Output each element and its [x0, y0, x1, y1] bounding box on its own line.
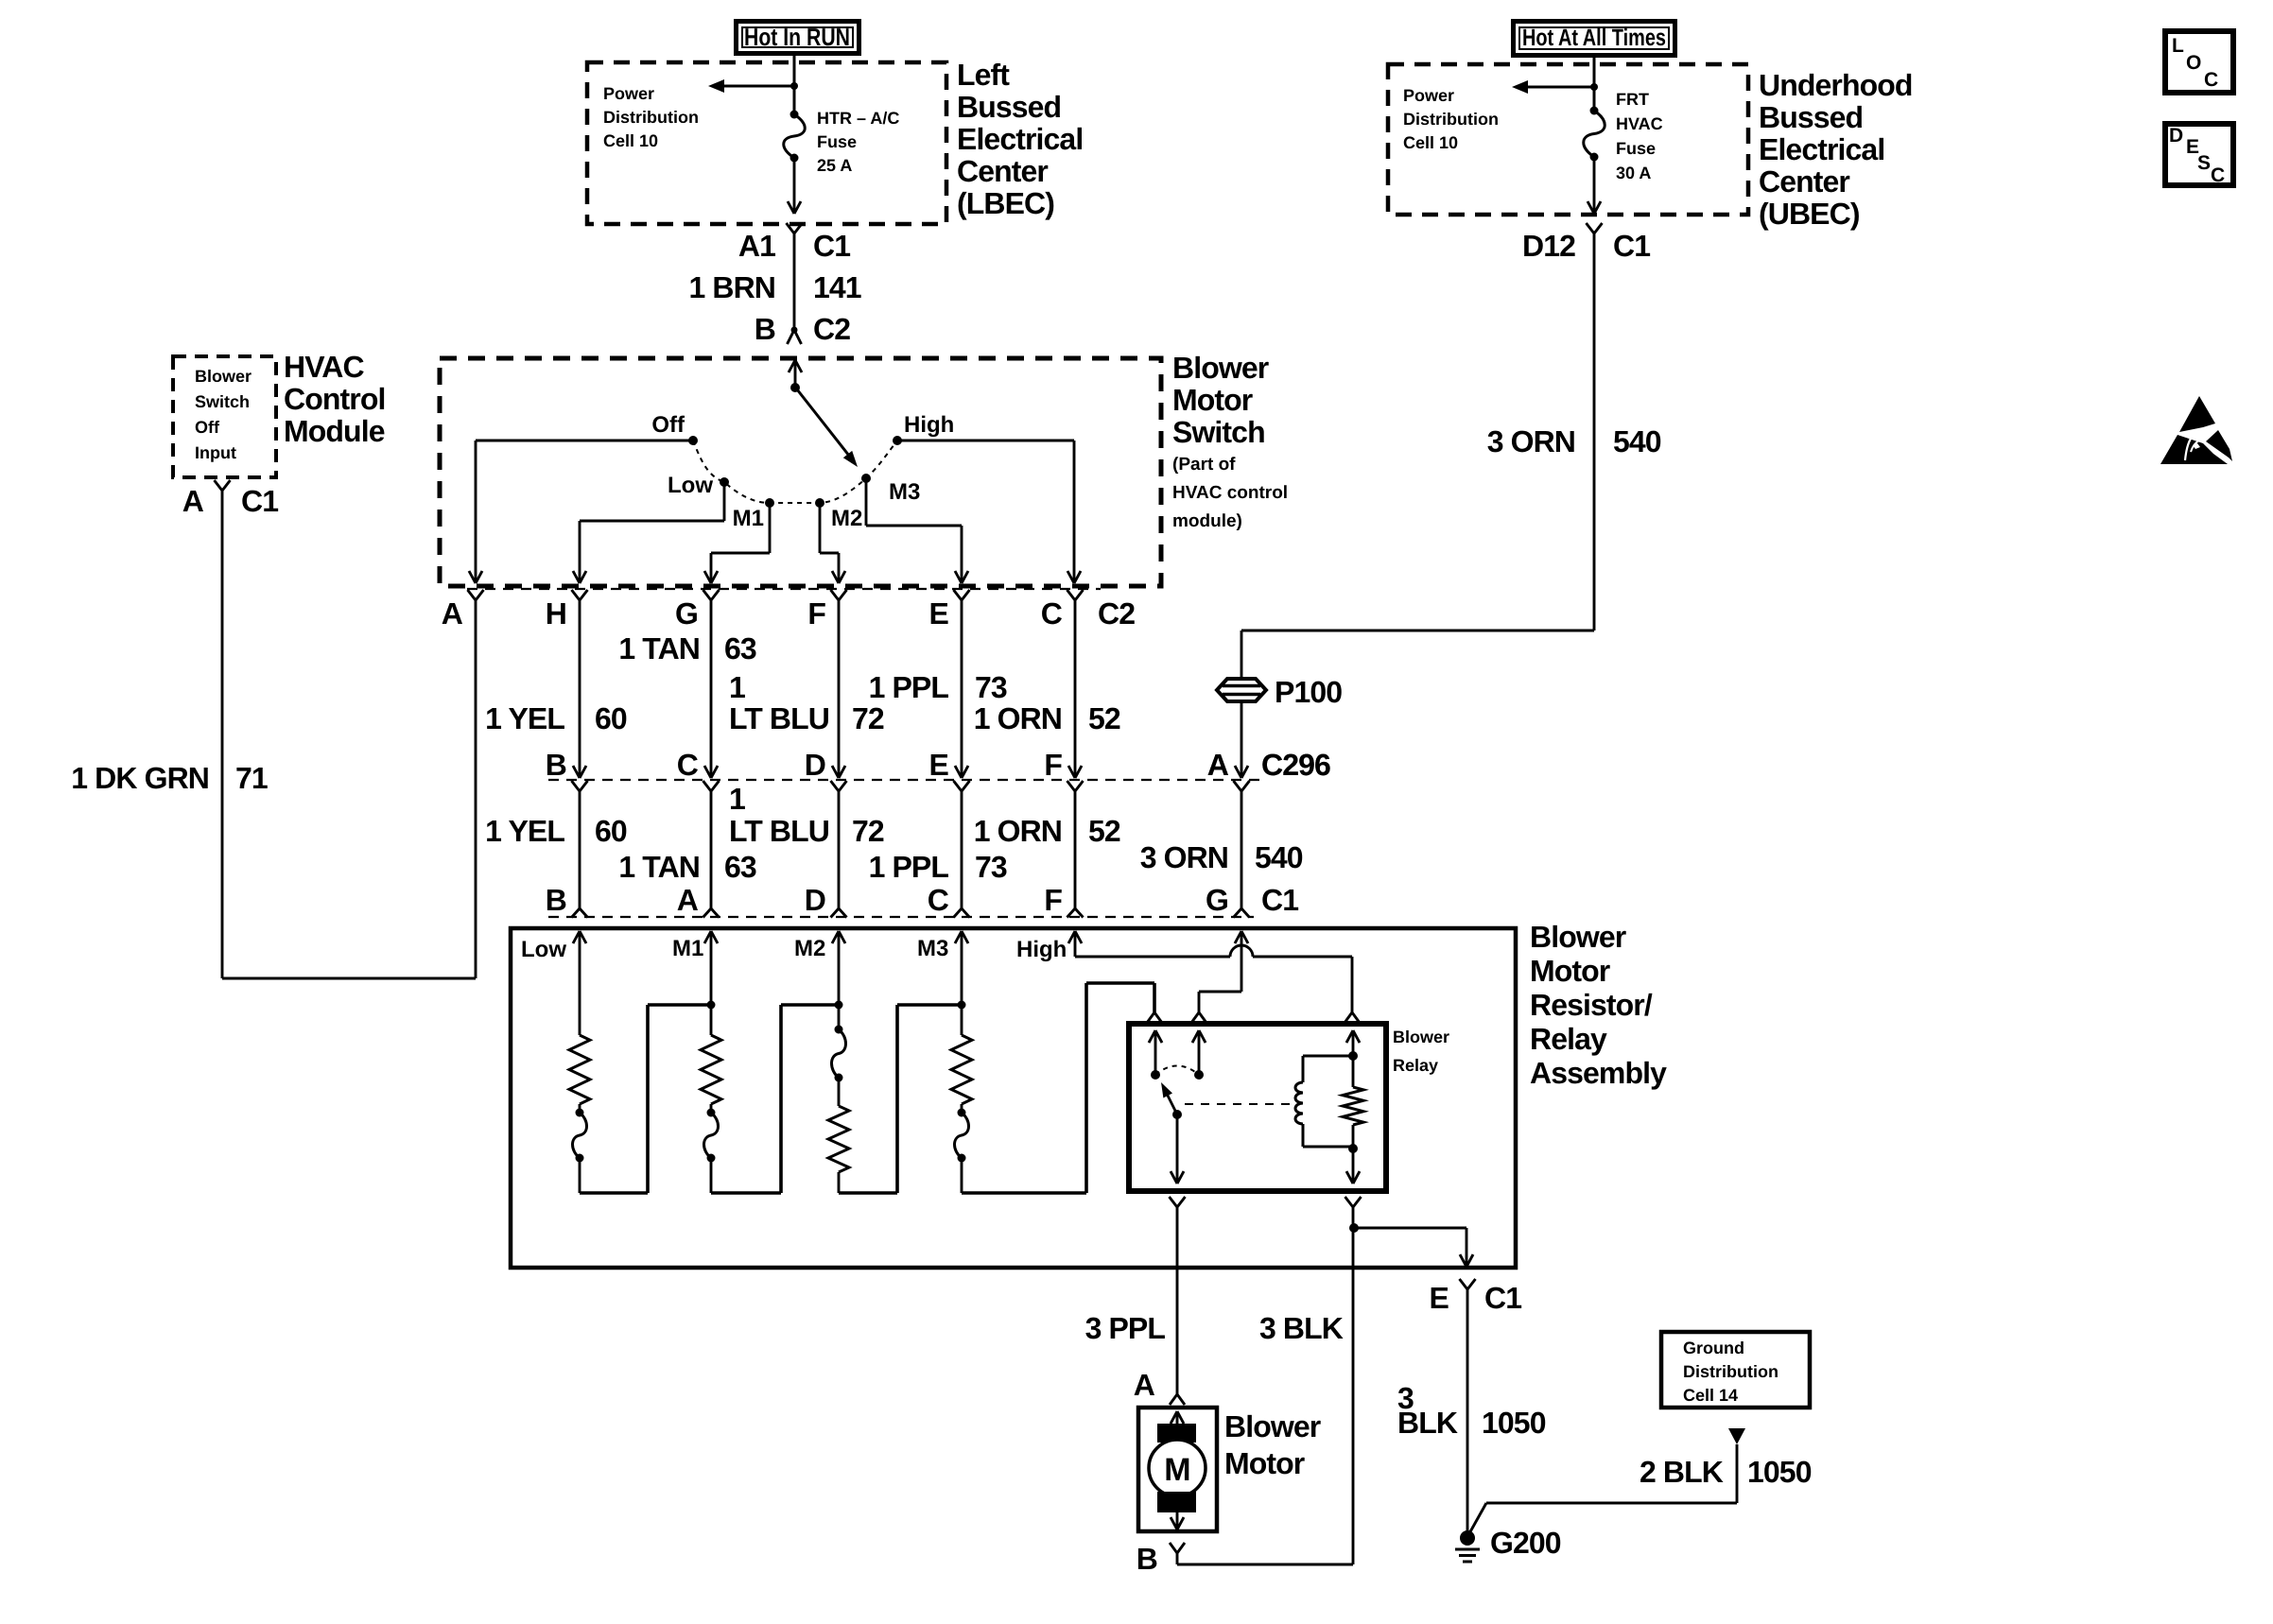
svg-text:Cell 14: Cell 14: [1683, 1386, 1738, 1405]
svg-text:Switch: Switch: [1172, 415, 1265, 449]
svg-text:Off: Off: [651, 412, 685, 438]
svg-text:72: 72: [852, 701, 884, 735]
svg-text:C296: C296: [1261, 748, 1330, 782]
svg-text:C1: C1: [1261, 883, 1298, 917]
svg-text:63: 63: [724, 850, 756, 884]
svg-text:C1: C1: [241, 484, 278, 518]
svg-text:1 BRN: 1 BRN: [688, 270, 775, 304]
svg-text:L: L: [2172, 35, 2184, 57]
svg-text:1 YEL: 1 YEL: [485, 814, 564, 848]
svg-text:A: A: [442, 596, 463, 631]
svg-text:Cell 10: Cell 10: [1403, 133, 1458, 152]
svg-text:G200: G200: [1490, 1526, 1561, 1560]
svg-text:Left: Left: [957, 58, 1010, 92]
svg-text:1 PPL: 1 PPL: [869, 670, 949, 704]
svg-text:D: D: [805, 883, 825, 917]
svg-text:25 A: 25 A: [817, 156, 852, 175]
svg-text:A: A: [1134, 1368, 1155, 1402]
svg-text:Center: Center: [957, 154, 1048, 188]
svg-text:Control: Control: [284, 382, 385, 416]
svg-text:Motor: Motor: [1530, 954, 1610, 988]
svg-text:1 YEL: 1 YEL: [485, 701, 564, 735]
svg-text:C2: C2: [813, 312, 850, 346]
svg-text:HTR – A/C: HTR – A/C: [817, 109, 899, 128]
svg-text:C1: C1: [813, 229, 850, 263]
svg-text:D: D: [805, 748, 825, 782]
svg-text:63: 63: [724, 631, 756, 665]
svg-text:Motor: Motor: [1224, 1446, 1305, 1480]
svg-text:H: H: [546, 596, 566, 631]
svg-text:Underhood: Underhood: [1759, 68, 1913, 102]
svg-text:60: 60: [595, 701, 627, 735]
svg-text:72: 72: [852, 814, 884, 848]
svg-text:Low: Low: [521, 937, 566, 962]
svg-text:141: 141: [813, 270, 861, 304]
svg-text:D: D: [2169, 125, 2183, 147]
svg-text:Ground: Ground: [1683, 1339, 1744, 1357]
svg-text:71: 71: [235, 761, 268, 795]
svg-text:D12: D12: [1522, 229, 1575, 263]
svg-text:(Part of: (Part of: [1172, 455, 1236, 475]
svg-text:F: F: [1044, 883, 1062, 917]
svg-text:C2: C2: [1098, 596, 1135, 631]
svg-text:Distribution: Distribution: [1683, 1362, 1778, 1381]
svg-text:Fuse: Fuse: [1616, 139, 1656, 158]
svg-text:3 ORN: 3 ORN: [1140, 840, 1228, 874]
svg-text:(LBEC): (LBEC): [957, 186, 1054, 220]
svg-text:HVAC: HVAC: [1616, 114, 1663, 133]
svg-text:M3: M3: [917, 936, 948, 961]
svg-text:3 PPL: 3 PPL: [1085, 1311, 1166, 1345]
svg-text:Relay: Relay: [1530, 1022, 1607, 1056]
svg-text:Relay: Relay: [1393, 1056, 1438, 1075]
svg-text:1 ORN: 1 ORN: [974, 814, 1062, 848]
svg-text:Blower: Blower: [195, 367, 252, 386]
svg-text:C: C: [677, 748, 699, 782]
svg-text:Bussed: Bussed: [1759, 100, 1863, 134]
svg-text:Blower: Blower: [1393, 1028, 1449, 1046]
svg-text:Electrical: Electrical: [1759, 132, 1884, 166]
svg-text:Hot In RUN: Hot In RUN: [744, 23, 850, 51]
svg-text:E: E: [929, 748, 949, 782]
svg-text:M1: M1: [672, 936, 703, 961]
svg-text:E: E: [929, 596, 949, 631]
svg-text:60: 60: [595, 814, 627, 848]
svg-text:Distribution: Distribution: [603, 108, 699, 127]
svg-text:30 A: 30 A: [1616, 164, 1651, 182]
svg-text:Off: Off: [195, 418, 220, 437]
svg-text:Assembly: Assembly: [1530, 1056, 1667, 1090]
svg-text:Switch: Switch: [195, 392, 250, 411]
svg-text:High: High: [1016, 937, 1067, 962]
svg-text:1: 1: [729, 670, 745, 704]
svg-text:B: B: [546, 883, 566, 917]
svg-text:1 DK GRN: 1 DK GRN: [71, 761, 209, 795]
svg-text:LT BLU: LT BLU: [729, 814, 829, 848]
svg-text:C: C: [928, 883, 949, 917]
svg-text:Cell 10: Cell 10: [603, 131, 658, 150]
svg-text:HVAC: HVAC: [284, 350, 364, 384]
svg-text:M: M: [1164, 1452, 1189, 1488]
svg-text:Power: Power: [1403, 86, 1454, 105]
svg-text:A: A: [182, 484, 204, 518]
svg-text:P100: P100: [1275, 675, 1342, 709]
svg-text:C: C: [1041, 596, 1063, 631]
svg-text:F: F: [1044, 748, 1062, 782]
svg-text:BLK: BLK: [1397, 1406, 1458, 1440]
svg-text:1 PPL: 1 PPL: [869, 850, 949, 884]
svg-text:B: B: [546, 748, 566, 782]
svg-text:1: 1: [729, 782, 745, 816]
svg-text:B: B: [1136, 1542, 1157, 1576]
svg-text:E: E: [1430, 1281, 1449, 1315]
svg-text:3 BLK: 3 BLK: [1259, 1311, 1344, 1345]
svg-text:High: High: [904, 412, 954, 438]
svg-text:1050: 1050: [1482, 1406, 1546, 1440]
svg-text:module): module): [1172, 511, 1242, 531]
svg-text:M3: M3: [889, 479, 920, 505]
svg-text:1 TAN: 1 TAN: [618, 850, 700, 884]
svg-text:O: O: [2186, 52, 2201, 74]
svg-text:Resistor/: Resistor/: [1530, 988, 1653, 1022]
svg-text:540: 540: [1255, 840, 1303, 874]
svg-text:HVAC control: HVAC control: [1172, 483, 1288, 503]
svg-text:52: 52: [1088, 814, 1120, 848]
svg-text:Blower: Blower: [1172, 351, 1269, 385]
svg-text:LT BLU: LT BLU: [729, 701, 829, 735]
svg-text:Input: Input: [195, 443, 236, 462]
svg-text:C: C: [2211, 164, 2225, 186]
svg-text:C: C: [2204, 69, 2218, 91]
svg-text:F: F: [807, 596, 825, 631]
svg-text:Power: Power: [603, 84, 654, 103]
svg-text:Distribution: Distribution: [1403, 110, 1499, 129]
svg-text:2 BLK: 2 BLK: [1640, 1455, 1724, 1489]
svg-text:S: S: [2197, 152, 2211, 174]
svg-text:Electrical: Electrical: [957, 122, 1083, 156]
svg-text:Hot At All Times: Hot At All Times: [1522, 25, 1666, 51]
svg-text:A: A: [677, 883, 699, 917]
svg-text:1050: 1050: [1747, 1455, 1812, 1489]
svg-text:1 ORN: 1 ORN: [974, 701, 1062, 735]
svg-text:73: 73: [975, 850, 1007, 884]
svg-text:M2: M2: [831, 506, 862, 531]
svg-text:Bussed: Bussed: [957, 90, 1061, 124]
svg-text:Center: Center: [1759, 164, 1849, 199]
svg-text:Motor: Motor: [1172, 383, 1253, 417]
svg-text:C1: C1: [1613, 229, 1650, 263]
svg-text:FRT: FRT: [1616, 90, 1649, 109]
svg-text:G: G: [675, 596, 698, 631]
svg-text:Fuse: Fuse: [817, 132, 857, 151]
svg-text:Module: Module: [284, 414, 385, 448]
svg-text:M1: M1: [733, 506, 764, 531]
svg-text:A: A: [1207, 748, 1229, 782]
svg-text:52: 52: [1088, 701, 1120, 735]
svg-text:Low: Low: [668, 473, 713, 498]
svg-text:C1: C1: [1484, 1281, 1521, 1315]
svg-text:A1: A1: [738, 229, 775, 263]
svg-text:540: 540: [1613, 424, 1661, 458]
svg-text:Blower: Blower: [1530, 920, 1626, 954]
svg-text:M2: M2: [794, 936, 825, 961]
svg-text:G: G: [1206, 883, 1228, 917]
svg-text:(UBEC): (UBEC): [1759, 197, 1860, 231]
svg-text:73: 73: [975, 670, 1007, 704]
svg-text:1 TAN: 1 TAN: [618, 631, 700, 665]
svg-text:B: B: [755, 312, 775, 346]
svg-text:3 ORN: 3 ORN: [1487, 424, 1575, 458]
svg-text:Blower: Blower: [1224, 1409, 1321, 1443]
